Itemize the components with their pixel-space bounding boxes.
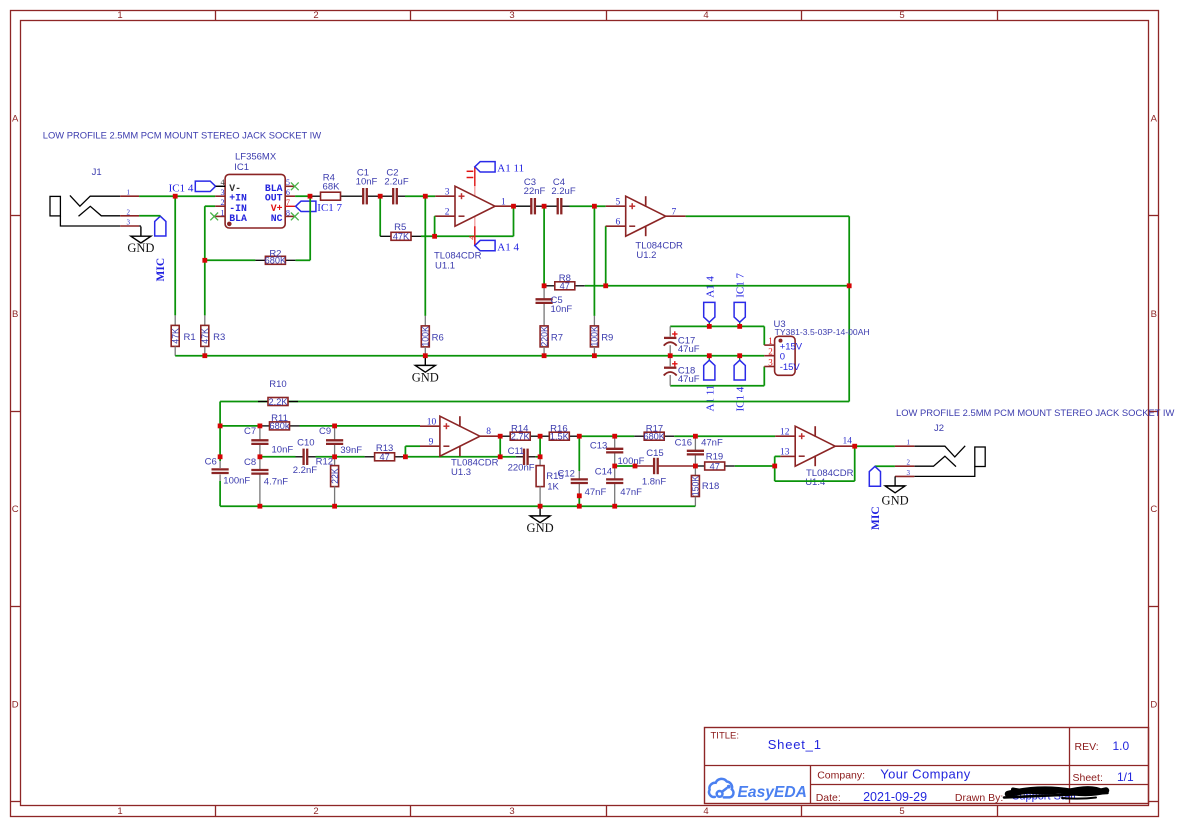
svg-text:C16: C16 — [675, 438, 692, 449]
svg-text:LOW PROFILE 2.5MM PCM MOUNT ST: LOW PROFILE 2.5MM PCM MOUNT STEREO JACK … — [43, 130, 321, 141]
junction U1.1 input node — [423, 194, 428, 199]
svg-text:47K: 47K — [200, 328, 210, 344]
svg-text:5: 5 — [615, 197, 620, 207]
supply -15V line — [670, 367, 764, 386]
wire down to R1 — [174, 196, 176, 325]
junction IC1 output node — [308, 194, 313, 199]
note LOW PROFILE jack J2 — [896, 407, 1174, 418]
capacitor C17 polarized — [664, 326, 700, 355]
junction R2/R3 node — [202, 258, 207, 263]
junction R5/U1.1 -IN node — [432, 234, 437, 239]
svg-text:14: 14 — [843, 437, 853, 447]
junction rail at C17/C18 — [668, 353, 673, 358]
svg-text:GND: GND — [882, 493, 909, 507]
resistor R15 — [536, 457, 564, 506]
IC1 pin names — [229, 183, 282, 224]
junction rail at R6 / ground symbol — [423, 353, 428, 358]
svg-text:Company:: Company: — [817, 770, 865, 782]
svg-text:10: 10 — [427, 417, 437, 427]
svg-text:1: 1 — [768, 336, 773, 346]
svg-text:8: 8 — [286, 208, 290, 217]
drawn-by scribbled-out name — [1004, 788, 1108, 802]
svg-text:A1 4: A1 4 — [497, 241, 519, 253]
svg-text:R10: R10 — [269, 379, 286, 390]
wire U1.3 feedback line — [405, 456, 500, 458]
svg-text:GND: GND — [127, 241, 154, 255]
net flag MIC at J2 pin 2 — [869, 466, 895, 530]
svg-text:3: 3 — [445, 187, 450, 197]
resistor R1 — [170, 325, 195, 346]
wire R11 line — [220, 425, 420, 427]
svg-text:C9: C9 — [319, 426, 331, 437]
wire R6 to rail — [424, 347, 426, 356]
connector J2 stereo jack — [895, 423, 985, 476]
wire U1.2 -IN drop — [605, 226, 607, 286]
svg-text:47nF: 47nF — [701, 438, 723, 449]
resistor R2 — [265, 248, 287, 265]
wire R19 to U1.4 - node — [735, 465, 775, 467]
svg-text:3: 3 — [127, 219, 131, 227]
svg-text:EasyEDA: EasyEDA — [738, 784, 807, 801]
resistor R17 — [615, 423, 696, 441]
capacitor C5 — [536, 286, 573, 326]
svg-text:2: 2 — [313, 10, 318, 21]
U1.1 power pin numbers 11 and 4 — [466, 171, 476, 240]
svg-text:7: 7 — [286, 198, 290, 207]
wire to R13 — [335, 456, 365, 458]
ground rail (top circuit) — [175, 355, 764, 357]
svg-text:2: 2 — [768, 347, 773, 357]
U3 pin names — [780, 341, 803, 373]
wire J1 pin2 to MIC flag — [139, 215, 160, 217]
resistor R16 — [540, 423, 579, 441]
junction C7 top — [258, 424, 263, 429]
junction C9/C10/R12 node — [332, 454, 337, 459]
svg-text:R9: R9 — [601, 332, 613, 343]
wire U1.4 feedback loop — [775, 446, 855, 481]
svg-text:47nF: 47nF — [585, 487, 607, 498]
junction R14/R16 node — [538, 434, 543, 439]
junction rail at R12 — [332, 504, 337, 509]
svg-text:2021-09-29: 2021-09-29 — [863, 790, 927, 804]
svg-text:B: B — [12, 309, 18, 320]
svg-text:C7: C7 — [244, 426, 256, 437]
wire R10 line from right column — [220, 402, 849, 426]
svg-text:1.8nF: 1.8nF — [642, 477, 666, 488]
wire down to R9 — [593, 206, 595, 325]
net flag A1 4 at U1.1 V- — [475, 240, 520, 253]
capacitor C4 — [544, 177, 576, 214]
junction rail at C14 — [612, 504, 617, 509]
resistor R8 — [544, 273, 585, 291]
svg-text:IC1 7: IC1 7 — [735, 273, 747, 298]
svg-text:220K: 220K — [539, 326, 549, 347]
capacitor C6 — [205, 457, 251, 507]
wire C2 to U1.1 + — [405, 195, 435, 197]
wire right column down to lower filter — [848, 286, 850, 402]
svg-text:6: 6 — [615, 217, 620, 227]
svg-text:47nF: 47nF — [620, 487, 642, 498]
ground symbol at J1 pin 3 — [127, 226, 154, 255]
resistor R4 — [310, 172, 355, 200]
svg-text:IC1 4: IC1 4 — [169, 182, 194, 194]
svg-text:68K: 68K — [323, 182, 341, 193]
resistor R18 — [691, 466, 720, 506]
svg-text:2.2uF: 2.2uF — [384, 176, 408, 187]
resistor R19 — [695, 451, 734, 471]
resistor R9 — [590, 326, 614, 347]
svg-text:MIC: MIC — [155, 258, 167, 282]
capacitor C16 — [675, 436, 723, 466]
svg-text:R5: R5 — [394, 222, 406, 233]
svg-text:13: 13 — [780, 448, 790, 458]
svg-text:U1.1: U1.1 — [435, 261, 455, 272]
wire down to R6 — [424, 196, 426, 325]
capacitor C10 — [293, 437, 317, 476]
IC1 pin numbers — [221, 178, 290, 217]
svg-text:47uF: 47uF — [678, 344, 700, 355]
wire C11 row — [500, 456, 516, 458]
frame column numbers — [117, 10, 904, 817]
resistor R6 — [421, 326, 444, 347]
junction U1.1 output — [511, 204, 516, 209]
net flag IC1 4 on 0V line — [734, 356, 747, 412]
svg-text:3: 3 — [907, 469, 911, 477]
svg-text:100nF: 100nF — [223, 475, 250, 486]
junction J1 pin1 node — [173, 194, 178, 199]
svg-text:R7: R7 — [551, 332, 563, 343]
junction 0V at A1 11 flag — [707, 353, 712, 358]
wire U1.3 output drop — [499, 436, 501, 457]
svg-text:Your Company: Your Company — [880, 766, 970, 781]
junction C12 bottom pin — [577, 493, 582, 498]
net flag A1 11 on 0V line — [704, 356, 717, 412]
EasyEDA logo — [709, 779, 807, 801]
ground symbol at lower rail — [527, 506, 554, 535]
resistor R10 — [258, 379, 298, 407]
svg-text:Sheet:: Sheet: — [1073, 772, 1103, 784]
wire middle row to C10 — [260, 456, 296, 458]
svg-text:U1.2: U1.2 — [636, 250, 656, 261]
svg-text:R18: R18 — [702, 481, 719, 492]
svg-text:LOW PROFILE 2.5MM PCM MOUNT ST: LOW PROFILE 2.5MM PCM MOUNT STEREO JACK … — [896, 407, 1174, 418]
svg-text:5: 5 — [286, 178, 290, 187]
svg-text:3: 3 — [768, 358, 773, 368]
U1.4 pin numbers — [780, 427, 852, 457]
svg-text:-15V: -15V — [780, 362, 801, 373]
junction C6 top — [218, 454, 223, 459]
wire R3 to ground rail — [204, 346, 206, 355]
svg-text:J1: J1 — [92, 167, 102, 178]
svg-text:A1 11: A1 11 — [704, 385, 716, 412]
wire U1.1 -IN jog — [434, 216, 437, 236]
svg-text:2: 2 — [221, 198, 225, 207]
svg-text:U1.4: U1.4 — [805, 477, 825, 488]
svg-text:3: 3 — [509, 806, 514, 817]
svg-text:2.2K: 2.2K — [269, 397, 289, 407]
junction rail at C8 — [258, 504, 263, 509]
svg-text:BLA: BLA — [229, 213, 247, 224]
svg-text:100K: 100K — [590, 326, 600, 347]
wire U1.1 output feedback drop — [513, 206, 515, 236]
svg-text:6: 6 — [286, 188, 290, 197]
svg-text:150K: 150K — [691, 476, 701, 497]
IC1 right pin stubs — [285, 186, 295, 216]
net flag A1 4 on +15V line — [704, 276, 717, 327]
resistor R12 — [316, 457, 340, 507]
wire R7 to rail — [543, 347, 545, 356]
svg-text:8: 8 — [486, 427, 491, 437]
J2 pin numbers — [907, 439, 911, 477]
svg-text:2: 2 — [907, 459, 911, 467]
junction C7/C8/C10 node — [258, 454, 263, 459]
svg-text:47K: 47K — [393, 232, 410, 242]
wire R16 to C13 node — [579, 435, 614, 437]
wire R8 to U1.2 - node — [585, 285, 849, 287]
capacitor C3 — [514, 177, 546, 214]
svg-text:9: 9 — [429, 437, 434, 447]
junction C1/C2 node — [378, 194, 383, 199]
wire down to R3 — [204, 260, 206, 325]
junction R8/U1.2 -IN node — [603, 283, 608, 288]
svg-text:4: 4 — [703, 10, 708, 21]
svg-text:GND: GND — [412, 370, 439, 384]
capacitor C7 — [244, 426, 293, 457]
junction rail at R7 — [542, 353, 547, 358]
wire R2 feedback net — [205, 259, 310, 261]
svg-text:7: 7 — [672, 207, 677, 217]
capacitor C9 — [319, 426, 362, 457]
junction rail at R9 — [592, 353, 597, 358]
svg-text:Sheet_1: Sheet_1 — [768, 737, 822, 752]
svg-text:R12: R12 — [316, 457, 333, 468]
svg-text:TY381-3.5-03P-14-00AH: TY381-3.5-03P-14-00AH — [775, 327, 870, 337]
svg-text:22nF: 22nF — [524, 186, 546, 197]
wire R5 to feedback node — [421, 235, 514, 237]
svg-text:GND: GND — [527, 521, 554, 535]
junction +15V at A1 4 flag — [707, 324, 712, 329]
svg-text:B: B — [1151, 309, 1157, 320]
svg-text:2.2nF: 2.2nF — [293, 465, 317, 476]
supply +15V line — [670, 326, 764, 345]
lower ground rail — [220, 505, 695, 507]
op-amp U1.2 TL084CDR — [606, 196, 686, 261]
title block frame — [705, 728, 1149, 804]
junction rail at R15 — [538, 504, 543, 509]
connector J1 stereo jack — [50, 167, 139, 226]
svg-text:TITLE:: TITLE: — [711, 731, 740, 742]
title block REV 1.0 — [1075, 739, 1130, 753]
capacitor C12 — [557, 436, 606, 498]
svg-text:5: 5 — [899, 806, 904, 817]
svg-text:4.7nF: 4.7nF — [264, 477, 288, 488]
capacitor C18 polarized — [664, 356, 700, 386]
svg-text:1/1: 1/1 — [1117, 770, 1134, 784]
svg-text:MIC: MIC — [870, 506, 882, 530]
title block Drawn By — [955, 792, 1003, 804]
wire R14 node down to C11 node — [539, 436, 541, 457]
title block TITLE label — [711, 731, 740, 742]
svg-text:C: C — [1150, 504, 1157, 515]
svg-text:A: A — [12, 113, 19, 124]
net flag IC1 7 on +15V line — [734, 273, 747, 327]
svg-text:R3: R3 — [213, 332, 225, 343]
svg-text:5: 5 — [899, 10, 904, 21]
op-amp U1.3 TL084CDR — [420, 416, 500, 478]
junction U1.3 output — [498, 434, 503, 439]
junction C3/C4 node — [542, 204, 547, 209]
svg-text:A1 11: A1 11 — [497, 162, 524, 174]
svg-text:1.0: 1.0 — [1113, 739, 1130, 753]
svg-text:Drawn By:: Drawn By: — [955, 792, 1003, 804]
svg-text:0: 0 — [780, 352, 785, 363]
svg-text:REV:: REV: — [1075, 741, 1099, 753]
junction C13/C14/C15 node — [612, 464, 617, 469]
svg-text:1: 1 — [117, 806, 122, 817]
wire R9 to rail — [593, 347, 595, 356]
capacitor C8 — [244, 457, 288, 506]
svg-text:R14: R14 — [511, 423, 528, 434]
svg-text:C6: C6 — [205, 457, 217, 468]
junction C13 top — [612, 434, 617, 439]
frame row letters — [12, 113, 1158, 710]
title block Sheet 1/1 — [1073, 770, 1135, 784]
capacitor C11 — [508, 446, 536, 474]
svg-text:NC: NC — [271, 213, 283, 224]
capacitor C15 — [635, 448, 695, 487]
junction R8/C5 node — [542, 283, 547, 288]
svg-text:D: D — [12, 700, 19, 711]
wire J1 pin1 to IC1 +IN — [139, 195, 215, 197]
svg-text:IC1 7: IC1 7 — [317, 202, 342, 214]
capacitor C2 — [380, 167, 409, 204]
junction R13/U1.3 -IN node — [403, 454, 408, 459]
title block Company row — [817, 766, 971, 781]
svg-text:10nF: 10nF — [272, 444, 294, 455]
wire C4 to U1.2 + — [570, 205, 606, 207]
svg-text:47: 47 — [710, 461, 720, 471]
wire C12 to rail — [578, 496, 580, 506]
wire U1.4 output to J2 — [855, 445, 895, 447]
svg-text:C15: C15 — [646, 448, 663, 459]
svg-text:10nF: 10nF — [356, 176, 378, 187]
svg-text:R11: R11 — [271, 413, 288, 424]
U3 pin numbers — [768, 336, 773, 367]
svg-text:100K: 100K — [421, 326, 431, 347]
U1.3 pin numbers — [427, 417, 492, 447]
svg-text:1: 1 — [501, 197, 506, 207]
svg-text:47K: 47K — [170, 328, 180, 344]
svg-text:A1 4: A1 4 — [704, 276, 716, 298]
wire C11 to R15 node — [536, 456, 540, 458]
wire U1.2 output to right column — [686, 216, 850, 286]
resistor R7 — [539, 326, 563, 347]
capacitor C14 — [595, 466, 642, 506]
svg-text:2: 2 — [127, 208, 131, 216]
U1.1 pin numbers — [445, 187, 506, 217]
wire R1 to ground rail — [174, 346, 176, 355]
svg-text:39nF: 39nF — [340, 445, 362, 456]
wire U1.4 -IN jog — [775, 456, 781, 466]
svg-text:R13: R13 — [376, 443, 393, 454]
junction C15 left lead — [633, 464, 638, 469]
svg-text:1: 1 — [221, 208, 225, 217]
junction U1.3 feedback/C11 node — [498, 454, 503, 459]
net flag IC1 7 at pin 7 — [296, 201, 343, 214]
svg-text:R6: R6 — [432, 332, 444, 343]
resistor R11 — [260, 413, 300, 431]
svg-text:2: 2 — [313, 806, 318, 817]
net flag A1 11 at U1.1 V+ — [475, 162, 524, 175]
junction C9 top — [332, 424, 337, 429]
capacitor C1 — [355, 167, 380, 204]
svg-text:C11: C11 — [508, 446, 525, 457]
junction R19/U1.4 -IN node — [772, 464, 777, 469]
wire C15 row — [615, 465, 635, 467]
svg-text:3: 3 — [509, 10, 514, 21]
wire IC1 -IN branch — [205, 206, 215, 260]
svg-text:C14: C14 — [595, 466, 612, 477]
junction C16/R19/R18 node — [693, 464, 698, 469]
junction R16/C12 node — [577, 434, 582, 439]
wire left column down to C6 — [219, 426, 221, 468]
svg-text:1: 1 — [127, 189, 131, 197]
svg-text:IC1 4: IC1 4 — [735, 386, 747, 411]
IC1 left pin stubs — [215, 186, 225, 216]
wire C3/C4 node down to R8 line — [543, 206, 545, 286]
op-amp U1.4 TL084CDR — [775, 426, 855, 488]
wire R17 node to U1.4 + — [695, 435, 775, 437]
resistor R13 — [365, 443, 405, 462]
wire C10 to C9/R12 node — [316, 456, 335, 458]
U1.2 pin numbers — [615, 197, 676, 227]
junction R17/C16 node — [693, 434, 698, 439]
op-amp U1.1 TL084CDR — [434, 167, 515, 272]
svg-text:C: C — [12, 504, 19, 515]
svg-text:R8: R8 — [559, 273, 571, 284]
J1 pin numbers — [127, 189, 131, 227]
wire U1.3 -IN jog — [405, 446, 420, 457]
svg-text:A: A — [1151, 113, 1158, 124]
junction C11/R15 node — [538, 454, 543, 459]
op-amp IC1 LF356MX body — [225, 152, 285, 228]
capacitor C13 — [590, 436, 645, 467]
junction rail at C12 — [577, 504, 582, 509]
svg-text:1K: 1K — [547, 482, 559, 493]
svg-text:U1.3: U1.3 — [451, 467, 471, 478]
junction U1.4 output — [852, 444, 857, 449]
svg-text:D: D — [1150, 700, 1157, 711]
svg-text:R1: R1 — [184, 332, 196, 343]
resistor R5 — [380, 222, 421, 242]
net flag IC1 4 at pin 4 — [169, 181, 225, 194]
resistor R14 — [500, 423, 540, 441]
junction U1.2 output / R8 node — [847, 283, 852, 288]
svg-text:10nF: 10nF — [551, 304, 573, 315]
junction 0V at IC1 4 flag — [737, 353, 742, 358]
svg-text:12: 12 — [780, 427, 790, 437]
svg-text:R2: R2 — [269, 248, 281, 259]
ground symbol at J2 pin 3 — [882, 476, 909, 507]
wire down to R5 line — [379, 196, 381, 236]
title block sheet name Sheet_1 — [768, 737, 822, 752]
junction rail at R3 — [202, 353, 207, 358]
title block Date row — [816, 790, 927, 804]
svg-text:IC1: IC1 — [234, 162, 249, 173]
regulator U3 TY381 — [764, 319, 869, 375]
junction C4/U1.2 node — [592, 204, 597, 209]
svg-text:2.2uF: 2.2uF — [551, 186, 575, 197]
